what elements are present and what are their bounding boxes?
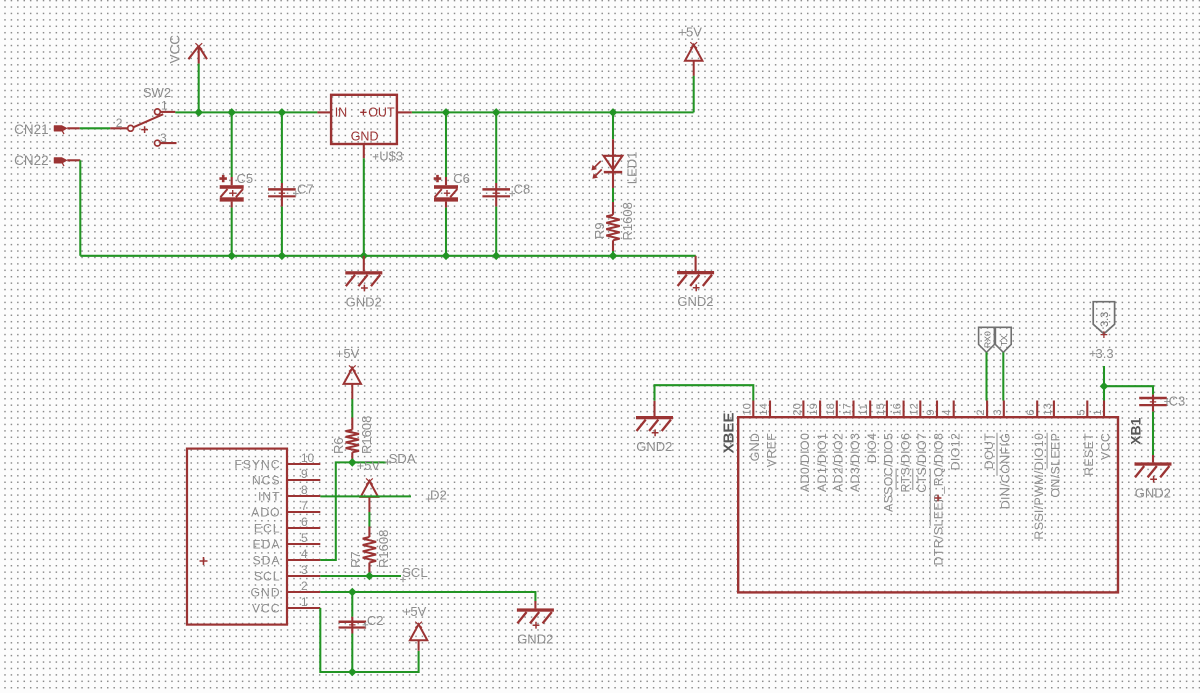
junction [278, 252, 287, 261]
wire R9 to rail [612, 251, 614, 256]
wire rail to LED1 [612, 112, 614, 139]
junction [278, 108, 287, 117]
wire rail to C6 [445, 112, 447, 177]
svg-text:DOUT: DOUT [982, 433, 996, 470]
wire top rail left [175, 111, 317, 113]
net label SDA [385, 451, 416, 466]
svg-text:AD3/DIO3: AD3/DIO3 [848, 433, 862, 492]
capacitor C8 [482, 182, 530, 207]
wire to C3 [1104, 386, 1153, 394]
wire VCC loop [320, 608, 418, 672]
module XB1 (XBEE) [720, 401, 1143, 593]
svg-text:AD0/DIO0: AD0/DIO0 [798, 433, 812, 492]
wire CN22 to bottom rail [79, 160, 81, 256]
svg-text:U$3: U$3 [379, 148, 403, 163]
svg-text:R7: R7 [348, 551, 363, 568]
wire C6 to rail [445, 208, 447, 256]
svg-text:C3: C3 [1169, 393, 1186, 408]
wire +5V to R6 [351, 399, 353, 418]
svg-text:+5V: +5V [678, 24, 702, 39]
svg-text:19: 19 [808, 403, 820, 415]
junction GND/C2 [348, 588, 357, 597]
svg-text:+5V: +5V [357, 458, 381, 473]
svg-text:CN21: CN21 [14, 122, 49, 137]
svg-text:GND: GND [351, 129, 379, 143]
svg-text:AD1/DIO1: AD1/DIO1 [815, 433, 829, 492]
wire rail to C7 [281, 112, 283, 183]
junction [227, 108, 236, 117]
wire C8 to rail [495, 207, 497, 256]
svg-text:AD2/DIO2: AD2/DIO2 [832, 433, 846, 492]
svg-text:1: 1 [1092, 409, 1104, 415]
svg-text:INT: INT [258, 489, 281, 503]
switch SW2 [110, 85, 176, 146]
svg-text:CTS/DIO7: CTS/DIO7 [915, 433, 929, 493]
ground GND2 (XBEE left) [636, 401, 673, 454]
svg-text:10: 10 [301, 451, 315, 465]
ground GND2 (IMU) [517, 601, 554, 647]
svg-text:5: 5 [1075, 409, 1087, 415]
wire GND to C2 [351, 592, 353, 617]
wire SDA to pin4 [320, 462, 352, 560]
power +5V (IMU) [403, 604, 428, 651]
svg-text:RSSI/PWM/DIO10: RSSI/PWM/DIO10 [1032, 433, 1046, 540]
svg-text:R6: R6 [331, 437, 346, 454]
svg-text:RTS/DIO6: RTS/DIO6 [898, 433, 912, 493]
net label SCL [400, 565, 427, 583]
svg-text:GND2: GND2 [517, 632, 553, 647]
junction [492, 108, 501, 117]
svg-text:TX: TX [999, 335, 1009, 346]
power VCC [168, 35, 208, 64]
svg-text:9: 9 [301, 467, 308, 481]
svg-text:SCL: SCL [402, 565, 428, 580]
junction SCL [365, 572, 374, 581]
svg-text:3.3: 3.3 [1099, 312, 1111, 327]
svg-text:ADO: ADO [251, 505, 280, 519]
ground GND2 (U$3) [345, 256, 382, 310]
wire SCL [320, 575, 401, 577]
svg-text:2: 2 [975, 409, 987, 415]
svg-text:DIO12: DIO12 [948, 433, 962, 471]
connector CN21 [14, 122, 80, 137]
wire C5 to rail [231, 208, 233, 256]
svg-text:5: 5 [301, 531, 308, 545]
resistor R9 [592, 202, 635, 251]
svg-text:GND2: GND2 [346, 294, 382, 309]
junction [194, 108, 203, 117]
wire to SDA label [352, 461, 386, 463]
junction SDA [348, 458, 357, 467]
resistor R7 [348, 527, 391, 573]
svg-text:R1608: R1608 [620, 202, 635, 240]
wire TX to pin3 [1002, 352, 1004, 400]
svg-text:+5V: +5V [336, 346, 360, 361]
svg-text:RX0: RX0 [982, 331, 992, 348]
wire VCC to rail [198, 64, 200, 113]
svg-text:VCC: VCC [1099, 433, 1113, 460]
svg-text:1: 1 [301, 595, 308, 609]
svg-text:VCC: VCC [252, 601, 281, 615]
junction [442, 108, 451, 117]
svg-text:9: 9 [925, 409, 937, 415]
svg-text:EDA: EDA [253, 537, 281, 551]
svg-text:8: 8 [301, 483, 308, 497]
LED LED1 [591, 139, 639, 188]
svg-text:20: 20 [791, 403, 803, 415]
svg-text:D2: D2 [430, 487, 447, 502]
wire rail to C5 [231, 112, 233, 177]
svg-text:CN22: CN22 [14, 153, 49, 168]
svg-text:C2: C2 [367, 613, 384, 628]
wire C3 to GND2 [1152, 412, 1154, 455]
svg-text:VREF: VREF [765, 433, 779, 468]
svg-text:18: 18 [825, 403, 837, 415]
svg-text:6: 6 [301, 515, 308, 529]
svg-text:3.3: 3.3 [1096, 346, 1114, 361]
svg-text:4: 4 [942, 409, 954, 415]
svg-text:C6: C6 [453, 171, 470, 186]
wire top rail right [412, 111, 694, 113]
svg-text:R1608: R1608 [359, 416, 374, 454]
capacitor C6 [434, 171, 470, 207]
xref flag TX [995, 327, 1011, 352]
wire C7 to rail [281, 207, 283, 256]
junction C2 bottom [348, 668, 357, 677]
wire CN21 to SW2 [80, 127, 110, 129]
regulator U$3 [317, 95, 411, 164]
svg-text:GND2: GND2 [1135, 486, 1171, 501]
svg-text:GND: GND [250, 585, 280, 599]
svg-text:11: 11 [858, 404, 870, 416]
power +5V (R7) [357, 458, 381, 512]
svg-text:LED1: LED1 [624, 152, 639, 185]
svg-text:17: 17 [842, 403, 854, 415]
ground GND2 (XB1) [1135, 455, 1172, 501]
svg-text:GND: GND [748, 433, 762, 462]
wire +5V to rail [693, 76, 695, 113]
power +5V (top) [678, 24, 702, 76]
junction [227, 252, 236, 261]
svg-text:RESET: RESET [1082, 433, 1096, 476]
junction [609, 108, 618, 117]
svg-text:SDA: SDA [253, 553, 281, 567]
svg-text:GND2: GND2 [636, 439, 672, 454]
svg-text:C7: C7 [297, 182, 314, 197]
svg-text:IN: IN [335, 106, 348, 120]
svg-text:NCS: NCS [252, 473, 281, 487]
capacitor C2 [339, 613, 384, 633]
svg-text:16: 16 [892, 403, 904, 415]
svg-text:15: 15 [875, 403, 887, 415]
IC IMU [187, 449, 320, 625]
svg-text:ECL: ECL [254, 521, 281, 535]
junction [609, 252, 618, 261]
svg-text:3: 3 [301, 563, 308, 577]
junction [442, 252, 451, 261]
svg-text:R1608: R1608 [376, 530, 391, 568]
resistor R6 [331, 416, 374, 461]
svg-text:C5: C5 [237, 171, 254, 186]
junction [360, 252, 369, 261]
capacitor C7 [268, 182, 314, 207]
wire LED1 to R9 [612, 188, 614, 202]
svg-text:ON/SLEEP: ON/SLEEP [1049, 433, 1063, 498]
wire U$3 GND to rail [363, 158, 365, 256]
svg-text:FSYNC: FSYNC [234, 457, 280, 471]
ground GND2 (top right) [677, 256, 714, 309]
svg-text:DIN/CONFIG: DIN/CONFIG [999, 433, 1013, 509]
svg-text:C8: C8 [514, 182, 531, 197]
svg-text:XBEE: XBEE [720, 413, 737, 454]
svg-text:XB1: XB1 [1127, 417, 1143, 444]
wire XBEE GND [655, 385, 754, 401]
svg-text:GND2: GND2 [677, 294, 713, 309]
wire 3.3 to VCC pin [1103, 366, 1105, 401]
svg-text:2: 2 [301, 579, 308, 593]
wire INT / D2 [320, 495, 411, 497]
svg-text:DIO4: DIO4 [865, 433, 879, 463]
wire +5V to R7 [368, 512, 370, 527]
wire bottom rail [80, 255, 696, 257]
xref flag RX0 [979, 327, 995, 352]
svg-text:4: 4 [301, 547, 308, 561]
junction [492, 252, 501, 261]
svg-text:OUT: OUT [368, 106, 395, 120]
supply 3.3 [1090, 302, 1115, 361]
wire C2 to bottom [351, 634, 353, 673]
svg-text:6: 6 [1025, 409, 1037, 415]
svg-text:14: 14 [758, 403, 770, 415]
svg-text:ASSOC/DIO5: ASSOC/DIO5 [882, 433, 896, 512]
svg-text:13: 13 [1042, 403, 1054, 415]
svg-text:7: 7 [301, 499, 308, 513]
capacitor C5 [219, 171, 253, 207]
junction VCC/C3 [1100, 382, 1109, 391]
svg-text:1: 1 [161, 99, 168, 113]
svg-text:SDA: SDA [389, 451, 416, 466]
power +5V (R6) [336, 346, 361, 399]
svg-text:+5V: +5V [403, 604, 427, 619]
net label D2 [426, 487, 447, 502]
svg-text:12: 12 [908, 403, 920, 415]
svg-text:SCL: SCL [254, 569, 281, 583]
wire RX0 to pin2 [985, 352, 987, 400]
svg-text:VCC: VCC [168, 35, 183, 64]
connector CN22 [14, 153, 80, 168]
wire rail to C8 [495, 112, 497, 183]
wire GND to GND2 [320, 592, 535, 601]
svg-text:3: 3 [992, 409, 1004, 415]
svg-text:10: 10 [741, 403, 753, 415]
capacitor C3 [1139, 393, 1185, 411]
svg-text:R9: R9 [592, 222, 607, 239]
